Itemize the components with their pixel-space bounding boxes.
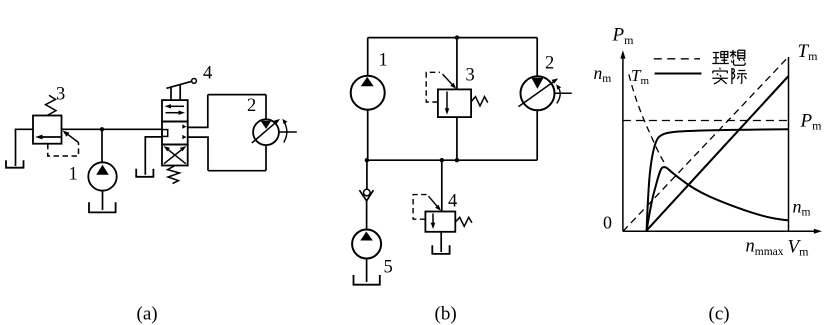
valve 4b spring: [455, 217, 472, 226]
valve 4 lever knob: [192, 79, 197, 84]
tank T5: [354, 275, 380, 285]
pump 5: [352, 230, 381, 259]
wire pump 1 to tank: [102, 191, 104, 210]
legend dashed sample: [654, 58, 700, 60]
wire pump 5 to tank: [366, 259, 368, 283]
wire valve 4b riser: [441, 160, 443, 211]
valve 4b internal arrow: [431, 214, 436, 230]
wire pump 1b riser: [367, 38, 369, 76]
relief valve 3 internal arrow: [35, 135, 60, 140]
svg-text:2: 2: [247, 96, 256, 116]
actual power curve: [647, 129, 789, 230]
motor 2b rotation arrow: [557, 86, 560, 103]
wire pump 1b to middle line: [367, 110, 369, 161]
check valve ball: [364, 189, 371, 196]
valve 4 bottom box: [162, 145, 188, 166]
valve 4 return spring: [168, 166, 180, 184]
svg-text:3: 3: [466, 66, 475, 86]
tank T1: [6, 160, 24, 167]
check valve seat: [359, 190, 373, 201]
node valve 3b junction: [455, 158, 459, 162]
svg-text:3: 3: [56, 85, 65, 105]
valve 4 middle box: [162, 122, 188, 145]
relief valve 3 pilot line: [48, 132, 79, 156]
svg-text:(c): (c): [709, 304, 730, 325]
x axis: [623, 230, 816, 232]
node top junction: [455, 35, 459, 39]
svg-text:(b): (b): [435, 304, 457, 325]
svg-text:1: 1: [69, 165, 78, 185]
valve 3b internal arrow: [445, 92, 450, 115]
legend solid sample: [655, 73, 702, 75]
node valve 4b junction: [440, 158, 444, 162]
node middle left junction: [365, 158, 369, 162]
right border Vm max line: [788, 57, 790, 231]
ideal power dashed horizontal: [623, 120, 789, 122]
y axis: [622, 58, 624, 232]
motor 2 shaft: [279, 131, 297, 133]
wire motor 2b to middle line: [536, 110, 538, 160]
wire valve 4b to tank: [440, 232, 442, 252]
legend text actual (实际): [712, 68, 746, 84]
valve 4 top box arrow left: [165, 104, 185, 108]
actual speed curve: [647, 167, 789, 230]
svg-text:(a): (a): [137, 304, 158, 325]
valve 4 top box: [162, 100, 188, 121]
pump 1 suction line: [101, 129, 103, 162]
pump 1: [88, 162, 116, 190]
valve 4b pilot line: [413, 195, 439, 220]
wire motor 2b riser: [536, 38, 538, 77]
wire relief valve outlet to tank: [16, 129, 34, 166]
valve 4 right port mark A: [182, 124, 186, 128]
valve 4 right port mark B: [182, 135, 186, 139]
tank T3: [136, 169, 153, 177]
tank T2: [89, 202, 116, 212]
motor 2b shaft: [555, 92, 572, 94]
valve 4 blocked port stub: [162, 130, 168, 137]
valve 3b body: [438, 89, 471, 117]
actual torque line: [647, 76, 789, 230]
valve 4b body: [425, 212, 455, 232]
motor 2: [253, 119, 279, 145]
wire loop top: [208, 94, 266, 96]
svg-text:1: 1: [379, 51, 388, 71]
wire middle line to check valve: [366, 160, 368, 189]
svg-text:2: 2: [545, 54, 554, 74]
wire motor bottom to loop: [265, 145, 267, 171]
wire valve 3b top line: [456, 38, 458, 90]
motor 2b variable arrow: [519, 78, 559, 106]
valve 4 top box arrow right: [166, 111, 186, 115]
wire top supply line: [368, 37, 538, 39]
motor 2b: [521, 76, 555, 110]
valve 4 lever posts: [170, 87, 172, 100]
wire main pressure line: [62, 128, 163, 130]
node junction pump-relief: [100, 127, 104, 131]
valve 3b spring: [471, 97, 488, 106]
wire valve port A to loop: [188, 95, 208, 128]
valve 4 crossed arrows: [164, 146, 187, 164]
motor 2 variable arrow: [252, 119, 280, 143]
pump 1b: [351, 76, 385, 110]
relief valve 3 body: [33, 116, 62, 144]
svg-text:5: 5: [384, 258, 393, 278]
wire valve 3b to middle line: [456, 117, 458, 160]
wire check valve to pump 5: [366, 201, 368, 230]
wire loop right to motor top: [265, 95, 267, 120]
wire loop bottom: [208, 170, 266, 172]
svg-text:4: 4: [448, 192, 457, 212]
relief valve 3 spring: [46, 95, 57, 115]
tank T4b: [432, 245, 449, 254]
valve 3b pilot line: [426, 72, 454, 102]
valve 4 lever arm: [167, 81, 192, 88]
wire valve tank drain: [145, 137, 162, 175]
legend text ideal (理想): [712, 50, 745, 65]
wire valve port B to loop: [188, 137, 208, 171]
ideal torque dashed diagonal: [623, 57, 789, 232]
ideal speed dashed hyperbola: [629, 74, 666, 164]
svg-text:0: 0: [603, 213, 612, 233]
svg-text:4: 4: [203, 64, 212, 84]
wire middle line: [367, 159, 537, 161]
motor 2 rotation arrow: [284, 121, 287, 143]
